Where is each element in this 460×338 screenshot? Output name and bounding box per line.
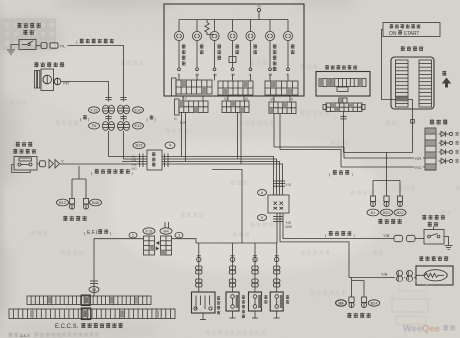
connector strip A (in box)	[172, 78, 177, 96]
caption ghost row	[9, 332, 13, 337]
oval B12	[57, 199, 69, 206]
oval 3	[175, 232, 183, 238]
parking brake switch S6	[424, 230, 444, 245]
connector small sensor 2	[253, 257, 257, 261]
connector small ignition coil	[197, 257, 201, 261]
wire: switch right lead with connectors	[36, 45, 41, 47]
alternator label	[34, 62, 38, 67]
connector bead ignition coil lower	[196, 279, 202, 283]
connector strip D	[175, 99, 180, 115]
oval 16	[89, 287, 99, 293]
wires below strip D	[181, 113, 183, 157]
wire: jog to bottom bus	[212, 170, 242, 244]
body ground label right	[378, 219, 382, 224]
lamp L2 name	[200, 44, 204, 49]
oval 5	[258, 215, 267, 221]
connector bead ignition coil upper	[196, 266, 202, 270]
sensor S4 label	[264, 295, 267, 299]
wire: alternator to chain F	[61, 82, 109, 96]
connector chain F (left column)	[108, 95, 110, 102]
ECCS upper connector strip	[27, 296, 151, 305]
bottom bus wire	[196, 242, 277, 244]
wire below ignition coil	[202, 313, 204, 320]
ground terminal GR2	[363, 294, 365, 297]
wires below X-box	[276, 213, 278, 243]
connector bead sensor 2 upper	[252, 266, 258, 270]
ground G2	[445, 245, 453, 247]
connector strip C (in box)	[265, 81, 298, 95]
sensor S5 label	[286, 295, 289, 299]
connector strip G below time unit	[323, 105, 327, 110]
wire Y/R to diode pack	[344, 157, 425, 159]
oil pressure switch S1	[19, 40, 36, 50]
highlighted cell lower	[81, 308, 90, 320]
connector on alternator output	[54, 78, 61, 85]
warning lamp L2	[196, 20, 198, 32]
warning lamp L4	[232, 20, 234, 32]
bus tick connectors left	[139, 154, 141, 168]
oval B46	[90, 199, 102, 206]
inline connector X-box	[268, 195, 289, 213]
connector on brake switch wire	[37, 163, 40, 165]
bus wire 4	[122, 164, 283, 195]
ground terminal GT1	[372, 193, 374, 196]
ground terminal GT3	[399, 193, 401, 196]
ground terminal GR1	[351, 294, 353, 297]
arrows between grids	[156, 241, 160, 251]
sensor S3 label	[242, 295, 245, 299]
EFI connector grid M4	[161, 236, 172, 255]
warning lamp L6	[269, 20, 271, 32]
connector bead sensor 1 upper	[229, 266, 235, 270]
tick on ECCS feed	[90, 280, 98, 282]
connector bead sensor 2 lower	[252, 279, 258, 283]
oval B2	[368, 300, 380, 306]
door symbol under lamp L4	[229, 57, 236, 63]
wire: fuse to node	[408, 100, 413, 153]
lamp bus wire	[179, 19, 288, 21]
lamp L4 name	[235, 44, 239, 49]
sensor S5 box	[270, 292, 283, 311]
feed pin at top	[258, 12, 260, 20]
connector strip B (in box)	[218, 81, 253, 95]
warning lamp L7	[287, 20, 289, 32]
wire: long feed to left	[344, 152, 413, 154]
connector small sensor 3	[275, 257, 279, 261]
wire drop sensor 3	[276, 243, 278, 292]
bus wire 2	[124, 159, 277, 195]
wires below strip F2	[273, 114, 275, 148]
oval E10	[133, 107, 144, 113]
warning lamp L5	[250, 20, 252, 32]
brake fluid level switch S2	[14, 157, 37, 171]
body ground label left	[63, 216, 67, 221]
wire below sensor S5	[276, 311, 278, 318]
sensor S3 box	[226, 292, 239, 311]
wire drop sensor 1	[232, 243, 234, 292]
wire drop ignition coil	[198, 243, 200, 292]
time control unit U2	[316, 72, 370, 97]
ground terminal drops	[372, 181, 374, 194]
oval F6	[89, 123, 100, 129]
ground terminal GT2	[386, 193, 388, 196]
oval F18	[143, 228, 155, 234]
diode pack label	[430, 119, 435, 125]
wires lamps to strips	[178, 74, 180, 81]
wires to bottom-right grounds	[349, 277, 390, 279]
wire below sensor S3	[232, 311, 234, 318]
connectors on fuel wire	[397, 270, 403, 276]
oval 6	[258, 190, 267, 196]
label UP with arrow	[442, 71, 446, 76]
bus wire 3	[122, 162, 280, 196]
bends from strip F2 wires to diode wires	[274, 147, 344, 158]
wire: ignition feed to fuse	[382, 30, 396, 100]
junction node	[411, 120, 415, 124]
oval B15	[133, 142, 145, 149]
lamp L6 name	[273, 44, 277, 49]
brake fluid level switch label	[16, 142, 20, 147]
warning lamp L1	[178, 20, 180, 32]
lamp L3 name	[217, 44, 221, 49]
wire below sensor S4	[254, 311, 256, 318]
diode symbols	[439, 133, 442, 135]
oval 4	[165, 142, 175, 149]
resistor R1 beside lamp L3	[205, 20, 215, 35]
alternator GEN1	[35, 71, 37, 89]
connector bead sensor 3 lower	[274, 279, 280, 283]
wire: feed to ground T	[386, 153, 388, 181]
body ground label bottom right	[347, 313, 351, 318]
bus wire 1	[109, 157, 274, 196]
wire: switch to ground	[11, 45, 19, 50]
ground G1	[7, 49, 15, 51]
oval B1	[367, 209, 379, 216]
wire: oil switch to chain E	[68, 46, 124, 96]
wire: grids to bottom bus	[172, 239, 197, 243]
oval E12	[133, 123, 144, 129]
wire Y/G to diode pack	[341, 166, 425, 168]
oval B3	[336, 300, 347, 306]
fuse box label	[401, 46, 405, 51]
oval B22	[394, 209, 406, 216]
ignition coil label	[217, 296, 220, 300]
fuel gauge unit FG	[416, 266, 453, 285]
oval M4	[160, 228, 172, 234]
lamp L5 name	[253, 44, 257, 49]
lamp L1 name	[182, 44, 186, 49]
EFI connector grid F18	[144, 236, 155, 255]
wire: grids to ECCS strip	[94, 239, 144, 296]
wires below strip E2	[237, 113, 239, 160]
fuel gauge unit label	[419, 256, 423, 261]
oil pressure switch label	[17, 23, 21, 28]
stub wires box to row2 strips	[182, 96, 184, 101]
ground terminal GL2	[85, 196, 87, 199]
lamp L7 name	[291, 44, 295, 49]
small connector between unit and strip G	[339, 98, 348, 103]
connector bead sensor 1 lower	[229, 279, 235, 283]
sensor S4 box	[249, 292, 262, 311]
diode pack D1-D4	[425, 128, 436, 170]
ground terminal GL1	[71, 196, 73, 199]
connector strip E2	[222, 101, 249, 113]
connector small sensor 1	[230, 257, 234, 261]
connector bead sensor 3 upper	[274, 266, 280, 270]
wire below strip G	[343, 112, 345, 153]
oval B29	[336, 300, 346, 306]
tick connectors on descent	[273, 180, 283, 182]
connector strip F2	[269, 102, 296, 114]
oval B21	[381, 209, 393, 216]
decorative ghost ink (not labelled further)	[239, 120, 243, 125]
connector pair on oil switch wire	[41, 43, 47, 49]
warning lamp L3	[214, 20, 216, 32]
time control unit label	[325, 65, 329, 70]
clip connectors	[49, 160, 54, 169]
oval 2	[129, 232, 137, 238]
connector chain E (right column)	[123, 95, 125, 102]
ignition coil box	[192, 292, 216, 313]
wire: stem to left ground pair	[72, 166, 86, 179]
wire drop sensor 2	[254, 243, 256, 292]
ignition switch note box	[383, 23, 440, 37]
combination meter warning lamp box	[164, 4, 304, 96]
ghost boxes above watermark	[392, 299, 428, 312]
wire + ground parking	[444, 237, 449, 246]
connectors on parking wire	[394, 235, 403, 241]
highlighted fuse	[396, 96, 408, 101]
fuse box FB	[391, 57, 434, 109]
ground T bar	[373, 180, 400, 182]
stub wires above grids	[164, 222, 166, 228]
oval F15	[89, 107, 100, 113]
pass-through connector box on bus	[147, 150, 162, 170]
highlighted cell upper	[81, 295, 90, 306]
parking brake switch label	[422, 215, 426, 220]
ECCS lower connector strip	[9, 309, 175, 319]
wire: brake switch to bus	[60, 163, 122, 165]
